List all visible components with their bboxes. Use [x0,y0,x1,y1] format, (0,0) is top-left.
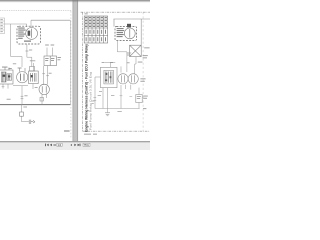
svg-text:75%: 75% [84,143,90,147]
svg-text:2/4: 2/4 [58,143,62,147]
svg-text:Fuel Pump Relay Circuit 3.5L V: Fuel Pump Relay Circuit 3.5L V6 Eng [88,72,92,130]
